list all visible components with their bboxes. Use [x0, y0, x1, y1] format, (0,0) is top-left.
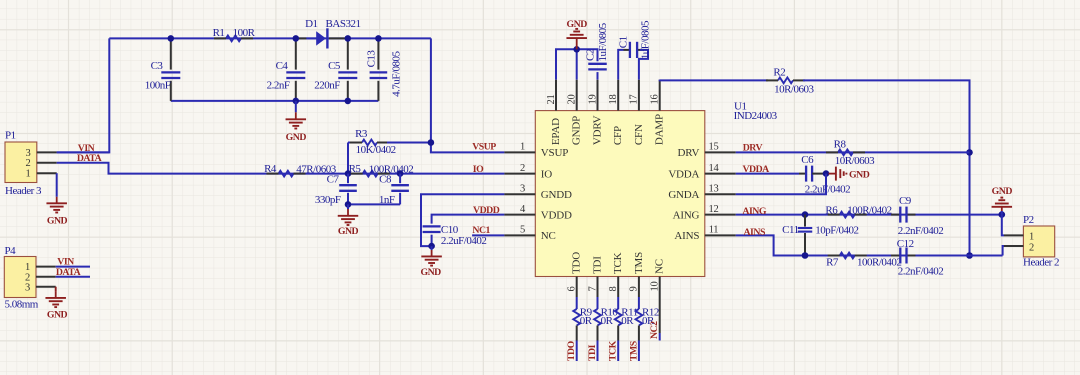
- ground at P4 pin 3: [55, 287, 57, 292]
- svg-text:NC: NC: [541, 230, 556, 242]
- resistor R12 0R: [638, 297, 640, 309]
- svg-text:C6: C6: [801, 154, 814, 166]
- capacitor C7 330pF: [347, 174, 349, 184]
- capacitor C12 2.2nF/0402: [891, 255, 900, 257]
- junction dot top gnd: [573, 46, 580, 53]
- capacitor C2 1uF/0805: [588, 63, 607, 65]
- svg-text:0R: 0R: [601, 315, 614, 327]
- resistor R7 100R/0402: [840, 253, 855, 259]
- svg-text:5: 5: [520, 225, 525, 236]
- svg-text:C1: C1: [618, 36, 630, 48]
- wire DATA P4: [56, 276, 90, 278]
- svg-text:8: 8: [608, 287, 619, 292]
- svg-text:R5: R5: [349, 163, 362, 175]
- capacitor C5 220nF: [347, 38, 349, 69]
- capacitor C10 2.2uF/0402: [423, 225, 441, 227]
- svg-text:AINS: AINS: [743, 227, 765, 238]
- svg-text:2.2nF/0402: 2.2nF/0402: [898, 225, 943, 237]
- connector P4 Header 3 5.08mm: [4, 257, 36, 298]
- svg-text:VDRV: VDRV: [592, 115, 604, 145]
- resistor R8 10R/0603: [838, 150, 853, 156]
- wire left riser VIN: [57, 38, 110, 152]
- svg-text:TMS: TMS: [633, 252, 645, 274]
- svg-text:14: 14: [709, 163, 720, 174]
- junction dot right vertical DRV: [966, 149, 973, 156]
- svg-text:C4: C4: [276, 60, 289, 72]
- wire VIN P1: [57, 151, 110, 153]
- svg-text:AINS: AINS: [674, 230, 699, 242]
- pin stubs P1: [37, 151, 57, 153]
- svg-text:R3: R3: [355, 128, 368, 140]
- svg-text:GND: GND: [286, 132, 307, 143]
- svg-text:C3: C3: [151, 60, 164, 72]
- svg-text:C2: C2: [585, 49, 597, 61]
- wire cap bottom rail: [171, 100, 379, 102]
- svg-text:R8: R8: [834, 138, 847, 150]
- svg-text:0R: 0R: [621, 315, 634, 327]
- svg-text:10R/0603: 10R/0603: [835, 155, 875, 167]
- svg-text:VSUP: VSUP: [541, 147, 568, 159]
- ground above P2: [1001, 211, 1003, 215]
- pin stubs U1 bottom 6-9: [576, 277, 578, 298]
- svg-text:9: 9: [629, 287, 640, 292]
- wire GNDD pin3 to gnd: [421, 194, 504, 246]
- svg-text:100nF: 100nF: [145, 80, 171, 92]
- wire VIN P4: [56, 266, 90, 268]
- connector P2 Header 2: [1023, 226, 1054, 257]
- wire junction to GNDA: [736, 174, 826, 195]
- svg-text:Header 3: Header 3: [5, 185, 42, 197]
- svg-text:D1: D1: [305, 18, 317, 30]
- junction dot AINS C11: [802, 252, 809, 259]
- svg-text:16: 16: [650, 95, 661, 105]
- svg-text:AING: AING: [742, 206, 766, 217]
- svg-text:C8: C8: [379, 174, 392, 186]
- wire right riser to VSUP: [431, 38, 505, 152]
- svg-text:C12: C12: [897, 238, 914, 250]
- svg-text:DRV: DRV: [743, 143, 763, 154]
- capacitor C3 100nF: [170, 38, 172, 69]
- svg-text:12: 12: [709, 204, 719, 215]
- resistor R11 0R: [617, 297, 619, 309]
- svg-text:1uF/0805: 1uF/0805: [597, 22, 609, 61]
- ground below C7: [347, 204, 349, 209]
- resistor R6 100R/0402: [840, 212, 855, 218]
- svg-text:VDDA: VDDA: [742, 164, 769, 175]
- svg-text:CFP: CFP: [612, 126, 624, 145]
- svg-text:21: 21: [546, 95, 557, 105]
- svg-text:1uF/0805: 1uF/0805: [640, 20, 652, 59]
- svg-text:C5: C5: [328, 60, 341, 72]
- junction dot R3 left on IO: [345, 170, 352, 177]
- svg-text:4.7uF/0805: 4.7uF/0805: [391, 50, 403, 96]
- svg-text:3: 3: [520, 184, 525, 195]
- junction dots bottom rail: [293, 98, 300, 105]
- capacitor C8 1nF: [399, 174, 401, 184]
- svg-text:TDO: TDO: [571, 252, 583, 274]
- wire VDDA: [736, 173, 799, 175]
- svg-text:1: 1: [1029, 231, 1034, 242]
- svg-text:10R/0603: 10R/0603: [774, 84, 814, 96]
- svg-text:C10: C10: [441, 224, 459, 236]
- svg-text:GND: GND: [420, 267, 441, 278]
- svg-text:6: 6: [567, 287, 578, 292]
- svg-text:GND: GND: [338, 226, 359, 237]
- wire DAMP to R2 rail: [660, 79, 768, 82]
- wire NC pin10: [659, 333, 661, 341]
- svg-text:5.08mm: 5.08mm: [5, 299, 39, 311]
- wire AING: [736, 214, 1002, 216]
- svg-text:TCK: TCK: [608, 340, 619, 361]
- svg-text:10pF/0402: 10pF/0402: [815, 225, 858, 237]
- wire C7 C8 bottoms: [348, 203, 400, 205]
- junction dot C7 gnd: [345, 201, 352, 208]
- capacitor C9 2.2nF/0402: [891, 214, 900, 216]
- resistor R4 47R/0603: [279, 171, 294, 177]
- svg-text:IO: IO: [473, 164, 484, 175]
- ground top GNDP: [576, 38, 578, 49]
- resistor R5 100R/0402: [363, 171, 378, 177]
- svg-text:R1: R1: [213, 27, 225, 39]
- svg-text:P4: P4: [5, 245, 17, 257]
- ground at P1 pin 1: [56, 173, 58, 197]
- pin stubs U1 top: [555, 80, 557, 111]
- capacitor C6 2.2uF/0402: [805, 166, 807, 182]
- svg-text:2: 2: [1029, 242, 1034, 253]
- ground right of C6: [829, 173, 836, 175]
- svg-text:10K/0402: 10K/0402: [356, 144, 396, 156]
- svg-text:VDDA: VDDA: [668, 168, 699, 180]
- svg-text:100R/0402: 100R/0402: [369, 164, 413, 176]
- junction dot R3 right: [428, 139, 435, 146]
- junction dot R5 right: [397, 170, 404, 177]
- svg-text:19: 19: [587, 95, 598, 105]
- wire to P2 pin2: [1003, 246, 1004, 256]
- junction dots top rail: [168, 35, 175, 42]
- svg-text:P2: P2: [1023, 214, 1034, 226]
- svg-text:C9: C9: [899, 195, 912, 207]
- resistor R3 10K/0402: [348, 142, 352, 144]
- svg-text:DAMP: DAMP: [654, 114, 666, 145]
- resistor R1: [226, 36, 241, 42]
- svg-text:GNDA: GNDA: [668, 189, 699, 201]
- svg-text:NC: NC: [654, 259, 666, 274]
- svg-text:2.2uF/0402: 2.2uF/0402: [441, 235, 486, 247]
- svg-text:GNDD: GNDD: [541, 189, 572, 201]
- pin stubs P4: [36, 266, 56, 268]
- svg-text:2.2nF/0402: 2.2nF/0402: [898, 265, 943, 277]
- svg-text:15: 15: [709, 142, 719, 153]
- svg-text:R2: R2: [773, 67, 785, 79]
- svg-text:0R: 0R: [580, 315, 593, 327]
- wire DRV: [736, 151, 970, 153]
- svg-text:TDI: TDI: [587, 344, 598, 361]
- wire NC pin5: [472, 234, 504, 236]
- capacitor C1 1uF/0805 between CFP CFN: [618, 50, 623, 80]
- svg-text:AING: AING: [673, 209, 700, 221]
- pin stubs U1 left: [504, 151, 535, 153]
- wire C6 to junction: [812, 173, 826, 175]
- wire R2 to right vertical: [803, 80, 970, 255]
- svg-text:18: 18: [608, 95, 619, 105]
- wire VDDD pin4 to C10: [432, 215, 505, 224]
- connector P1 Header 3: [5, 142, 37, 183]
- svg-text:IND24003: IND24003: [734, 110, 778, 122]
- svg-text:VSUP: VSUP: [472, 141, 496, 152]
- svg-text:2: 2: [26, 158, 31, 169]
- svg-text:CFN: CFN: [633, 124, 645, 145]
- svg-text:GNDP: GNDP: [571, 116, 583, 145]
- svg-text:1: 1: [520, 142, 525, 153]
- capacitor C13 4.7uF/0805: [377, 38, 379, 69]
- pin stubs U1 right: [705, 151, 736, 153]
- svg-text:TCK: TCK: [612, 252, 624, 274]
- junction dot C6 gnd: [823, 170, 830, 177]
- svg-text:TDO: TDO: [566, 340, 577, 361]
- svg-text:13: 13: [709, 184, 719, 195]
- svg-text:3: 3: [25, 282, 30, 293]
- svg-text:11: 11: [709, 225, 719, 236]
- svg-text:DRV: DRV: [678, 147, 700, 159]
- svg-text:C13: C13: [366, 50, 378, 68]
- svg-text:NC2: NC2: [649, 321, 660, 339]
- wire to P2 pin1: [1002, 215, 1004, 236]
- ground below C4: [295, 101, 297, 112]
- junction dot AING C11: [802, 211, 809, 218]
- svg-text:17: 17: [629, 95, 640, 105]
- svg-text:VDDD: VDDD: [473, 205, 500, 216]
- pin stubs P2: [1004, 234, 1023, 236]
- IC U1 IND24003 body: [535, 111, 705, 277]
- svg-text:VDDD: VDDD: [541, 209, 572, 221]
- wire EPAD GNDP to gnd: [556, 49, 598, 79]
- svg-text:C7: C7: [327, 174, 340, 186]
- svg-text:2: 2: [520, 163, 525, 174]
- resistor R9 0R: [576, 297, 578, 309]
- svg-text:100R/0402: 100R/0402: [847, 205, 891, 217]
- svg-text:Header 2: Header 2: [1023, 257, 1059, 269]
- svg-text:R7: R7: [826, 257, 839, 269]
- diode D1 BAS321: [296, 37, 307, 39]
- svg-text:10: 10: [650, 282, 661, 292]
- svg-text:P1: P1: [5, 130, 16, 142]
- resistor R2 10R/0603: [778, 78, 793, 84]
- junction dot AING right: [999, 211, 1006, 218]
- svg-text:TMS: TMS: [628, 340, 639, 361]
- svg-text:20: 20: [567, 95, 578, 105]
- resistor R10 0R: [597, 297, 599, 309]
- svg-text:2.2nF: 2.2nF: [267, 80, 290, 92]
- wire AINS: [736, 235, 1003, 255]
- svg-text:EPAD: EPAD: [550, 118, 562, 145]
- capacitor C4 2.2nF: [295, 38, 297, 69]
- svg-text:330pF: 330pF: [315, 194, 341, 206]
- svg-text:GND: GND: [849, 170, 870, 181]
- svg-text:TDI: TDI: [592, 256, 604, 274]
- svg-text:100R/0402: 100R/0402: [857, 257, 901, 269]
- svg-text:BAS321: BAS321: [326, 18, 361, 30]
- svg-text:C11: C11: [782, 224, 798, 236]
- svg-text:GND: GND: [47, 216, 68, 227]
- svg-text:R6: R6: [825, 204, 838, 216]
- svg-text:220nF: 220nF: [314, 80, 340, 92]
- svg-text:IO: IO: [541, 168, 552, 180]
- junction dot right vertical AINS: [966, 252, 973, 259]
- svg-text:GND: GND: [992, 186, 1013, 197]
- wire DATA to IO line: [57, 163, 505, 174]
- svg-text:GND: GND: [47, 309, 68, 320]
- svg-text:R4: R4: [264, 163, 277, 175]
- svg-text:1: 1: [26, 169, 31, 180]
- svg-text:GND: GND: [567, 19, 588, 30]
- svg-text:100R: 100R: [233, 27, 256, 39]
- capacitor C11 10pF/0402: [804, 215, 806, 227]
- pin stub U1 pin10: [659, 277, 661, 334]
- wire top rail: [109, 37, 431, 39]
- ground below C10: [431, 246, 433, 250]
- svg-text:7: 7: [587, 287, 598, 292]
- junction dot C10 gnd: [428, 243, 435, 250]
